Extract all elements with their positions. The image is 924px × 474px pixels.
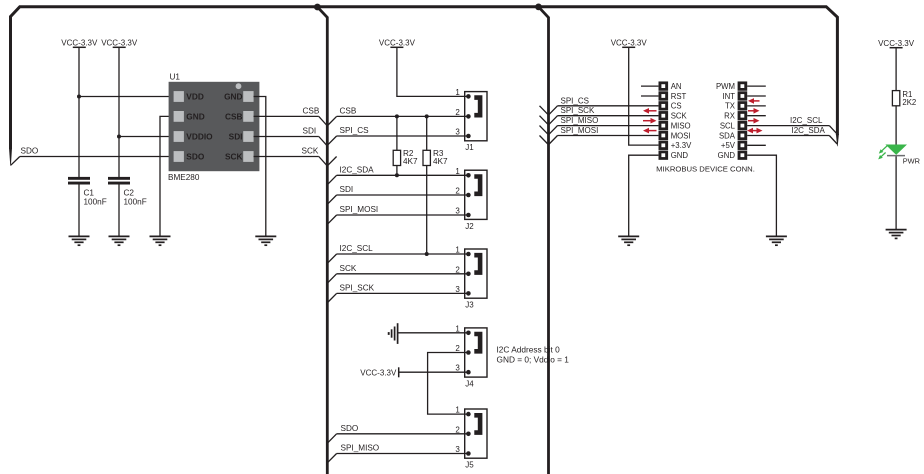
node junction VDDIO rail <box>117 135 121 139</box>
ground (U1 GND left) <box>150 236 171 245</box>
svg-text:+5V: +5V <box>721 141 736 150</box>
resistor R2 4K7 <box>393 116 400 175</box>
label C2 100nF <box>124 188 147 206</box>
svg-text:SCK: SCK <box>225 152 243 162</box>
arrow direction SCK/MISO <box>643 118 657 124</box>
svg-text:I2C Address bit 0: I2C Address bit 0 <box>497 344 561 354</box>
labels mikroBUS left pins <box>671 82 692 160</box>
svg-text:U1: U1 <box>170 73 181 82</box>
svg-text:SPI_MISO: SPI_MISO <box>341 444 380 453</box>
net SPI_MOSI wire divider to MOSI pin <box>549 136 658 145</box>
svg-text:MOSI: MOSI <box>671 131 691 140</box>
svg-text:GND = 0; Vddio = 1: GND = 0; Vddio = 1 <box>497 354 570 364</box>
border frame right taper end <box>836 134 839 146</box>
svg-text:SDO: SDO <box>21 147 39 156</box>
power symbol VCC-3.3V (C1 rail) <box>61 38 98 47</box>
tear stub left of divider row MISO <box>540 126 548 135</box>
wire VCC to R1 <box>895 48 897 90</box>
section divider 2 <box>535 4 548 474</box>
led emission arrows <box>878 145 888 160</box>
svg-text:3: 3 <box>455 445 460 454</box>
svg-text:CSB: CSB <box>225 111 243 121</box>
svg-text:VCC-3.3V: VCC-3.3V <box>61 38 98 47</box>
svg-text:J5: J5 <box>465 461 474 470</box>
svg-text:I2C_SDA: I2C_SDA <box>792 126 826 135</box>
svg-text:3: 3 <box>455 207 460 216</box>
svg-text:SPI_SCK: SPI_SCK <box>340 284 375 293</box>
ground (mikroBUS right) <box>766 236 787 245</box>
svg-text:2K2: 2K2 <box>902 98 916 107</box>
svg-text:VDD: VDD <box>186 92 204 102</box>
resistor R1 2K2 <box>892 91 899 106</box>
arrow direction TX/RX <box>748 108 760 114</box>
net SCK wire U1 to divider <box>254 157 327 166</box>
svg-text:MIKROBUS DEVICE CONN.: MIKROBUS DEVICE CONN. <box>656 165 755 174</box>
svg-text:CS: CS <box>671 102 682 111</box>
net SPI_MISO wire divider to J5 pin3 <box>328 454 468 463</box>
node junction R3 top on CSB <box>425 114 429 118</box>
wire TX pin stub <box>747 105 766 107</box>
wire VDD to U1 <box>79 96 173 98</box>
svg-text:RX: RX <box>724 112 736 121</box>
wire VCC to J1 pin1 <box>397 48 469 96</box>
svg-text:I2C_SDA: I2C_SDA <box>340 166 375 175</box>
wire J4 pin2 to J5 pin1 <box>428 353 469 415</box>
wire INT pin stub <box>747 95 766 97</box>
svg-text:SPI_CS: SPI_CS <box>340 126 370 135</box>
ground (C2) <box>109 236 130 245</box>
svg-text:SPI_MISO: SPI_MISO <box>561 116 599 125</box>
svg-text:SDO: SDO <box>341 424 359 433</box>
net I2C_SCL wire SCL pin to right edge <box>747 126 837 135</box>
net SDI wire divider to J2 pin2 <box>328 195 468 204</box>
label R2 4K7 <box>403 149 418 166</box>
svg-text:2: 2 <box>455 344 460 353</box>
svg-text:1: 1 <box>455 324 460 333</box>
connector mikroBUS left header <box>659 81 669 159</box>
wire PWM pin stub <box>747 85 766 87</box>
svg-text:1: 1 <box>455 167 460 176</box>
ground (PWR) <box>886 230 907 239</box>
svg-text:3: 3 <box>455 364 460 373</box>
svg-text:SDI: SDI <box>229 132 243 142</box>
net SCK wire divider to J3 pin2 <box>328 274 468 283</box>
svg-text:SDA: SDA <box>719 131 736 140</box>
svg-text:SPI_MOSI: SPI_MOSI <box>340 205 379 214</box>
svg-text:J1: J1 <box>465 143 474 152</box>
svg-text:SCK: SCK <box>671 112 688 121</box>
net SDO wire from left edge to U1 <box>11 157 173 166</box>
net SPI_SCK wire divider to SCK pin <box>549 116 658 125</box>
ic U1 BME280 <box>169 82 260 171</box>
svg-text:J4: J4 <box>465 380 474 389</box>
connector J4 <box>455 324 487 388</box>
node junction VDD rail <box>77 95 81 99</box>
capacitor C2 <box>108 177 130 185</box>
svg-text:C2: C2 <box>124 188 135 197</box>
svg-text:J2: J2 <box>465 222 474 231</box>
svg-text:BME280: BME280 <box>168 173 200 182</box>
net SPI_CS wire divider to J1 pin3 <box>328 136 468 145</box>
svg-text:2: 2 <box>455 425 460 434</box>
svg-text:GND: GND <box>224 92 242 102</box>
svg-text:PWM: PWM <box>716 82 735 91</box>
svg-text:SCL: SCL <box>720 121 736 130</box>
arrow direction MISO/MOSI <box>643 128 657 134</box>
svg-text:2: 2 <box>455 187 460 196</box>
svg-text:CSB: CSB <box>303 107 320 116</box>
net SDO wire divider to J5 pin2 <box>328 434 468 443</box>
svg-text:VDDIO: VDDIO <box>186 132 213 142</box>
label C1 100nF <box>84 188 107 206</box>
svg-text:AN: AN <box>671 82 682 91</box>
wire U1 GND to ground <box>160 116 173 236</box>
connector J5 <box>455 406 487 470</box>
svg-text:I2C_SCL: I2C_SCL <box>790 116 823 125</box>
svg-text:3: 3 <box>455 128 460 137</box>
svg-text:4K7: 4K7 <box>433 157 448 166</box>
wire VCC to +3.3V pin <box>629 48 659 145</box>
svg-text:1: 1 <box>455 88 460 97</box>
svg-text:MISO: MISO <box>671 121 691 130</box>
svg-text:2: 2 <box>455 265 460 274</box>
tear stub left of divider row CS <box>540 106 548 115</box>
section divider 1 <box>314 4 327 474</box>
svg-text:J3: J3 <box>465 301 474 310</box>
svg-text:1: 1 <box>455 246 460 255</box>
border frame left taper end <box>9 148 12 166</box>
svg-text:I2C_SCL: I2C_SCL <box>340 244 374 253</box>
wire GND pin to ground <box>629 155 659 236</box>
svg-text:SPI_MOSI: SPI_MOSI <box>561 126 599 135</box>
ground (J4 pin1, sideways) <box>389 323 398 344</box>
power symbol VCC-3.3V (mikroBUS) <box>611 38 648 47</box>
arrow direction CS/SCK <box>643 108 657 114</box>
svg-text:C1: C1 <box>84 188 95 197</box>
svg-text:4K7: 4K7 <box>403 157 418 166</box>
svg-text:SDI: SDI <box>303 127 317 136</box>
power symbol VCC-3.3V (C2 rail) <box>101 38 138 47</box>
svg-text:VCC-3.3V: VCC-3.3V <box>611 38 648 47</box>
svg-text:VCC-3.3V: VCC-3.3V <box>878 39 915 48</box>
tear stub left of divider row SCK <box>540 116 548 125</box>
wire RX pin stub <box>747 115 766 117</box>
ground (mikroBUS left) <box>618 236 639 245</box>
svg-text:SDI: SDI <box>340 185 354 194</box>
svg-text:1: 1 <box>455 406 460 415</box>
tear stub left of divider row MOSI <box>540 136 548 145</box>
border frame top edge <box>11 7 838 149</box>
tear stub at SCK row <box>328 157 337 166</box>
svg-text:PWR: PWR <box>903 157 920 166</box>
label R1 2K2 <box>902 90 916 107</box>
wire VDDIO to U1 <box>119 136 173 138</box>
wire AN pin stub <box>641 85 658 87</box>
power symbol VCC-3.3V (J1) <box>379 38 416 47</box>
net CSB wire divider to J1 pin2 <box>328 116 468 125</box>
svg-text:+3.3V: +3.3V <box>671 141 692 150</box>
svg-text:SCK: SCK <box>340 264 357 273</box>
wire LED to ground <box>895 156 897 229</box>
node junction R3 bottom on I2C_SCL <box>425 252 429 256</box>
wire VCC rail 2 down to C2 and ground <box>118 48 120 236</box>
wire R1 to LED <box>895 106 897 145</box>
label R3 4K7 <box>433 149 448 166</box>
label note I2C address <box>497 344 570 364</box>
svg-text:RST: RST <box>671 92 687 101</box>
svg-text:VCC-3.3V: VCC-3.3V <box>101 38 138 47</box>
wire +5V pin stub <box>747 144 766 146</box>
wire ground to J4 pin1 <box>398 332 469 334</box>
wire VCC to J4 pin3 <box>399 371 469 373</box>
svg-text:100nF: 100nF <box>84 197 107 206</box>
net I2C_SDA wire SDA pin to right edge <box>747 136 837 145</box>
svg-text:VCC-3.3V: VCC-3.3V <box>360 368 397 377</box>
svg-text:TX: TX <box>725 102 736 111</box>
svg-text:GND: GND <box>186 111 204 121</box>
wire RST pin stub <box>641 95 658 97</box>
svg-text:SDO: SDO <box>186 152 205 162</box>
wire GND pin to ground (right) <box>747 155 776 236</box>
node junction R2 bottom on I2C_SDA <box>395 173 399 177</box>
power symbol VCC-3.3V (J4 pin3) <box>360 367 398 377</box>
ground (U1 GND right) <box>255 236 276 245</box>
led PWR (green) <box>885 145 907 156</box>
net I2C_SCL wire divider to J3 pin1 <box>328 254 468 263</box>
svg-text:100nF: 100nF <box>124 197 147 206</box>
net CSB wire U1 to divider <box>254 116 327 125</box>
svg-text:SPI_CS: SPI_CS <box>561 96 589 105</box>
connector J3 <box>455 246 487 310</box>
capacitor C1 <box>68 177 90 185</box>
connector mikroBUS right header <box>738 81 748 159</box>
arrow direction INT/TX <box>748 98 760 104</box>
svg-text:VCC-3.3V: VCC-3.3V <box>379 38 416 47</box>
wire VCC rail 1 down to C1 and ground <box>78 48 80 236</box>
svg-text:2: 2 <box>455 108 460 117</box>
net I2C_SDA wire divider to J2 pin1 <box>328 175 468 184</box>
net SPI_MOSI wire divider to J2 pin3 <box>328 215 468 224</box>
connector J1 <box>455 88 487 152</box>
svg-text:CSB: CSB <box>340 107 357 116</box>
ground (C1) <box>69 236 90 245</box>
net SPI_MISO wire divider to MISO pin <box>549 126 658 135</box>
arrow direction RX/SCL <box>748 118 760 124</box>
svg-text:GND: GND <box>718 151 736 160</box>
svg-text:3: 3 <box>455 285 460 294</box>
resistor R3 4K7 <box>423 116 430 254</box>
node junction R2 top on CSB <box>395 114 399 118</box>
svg-text:INT: INT <box>722 92 735 101</box>
net SDI wire U1 to divider <box>254 137 327 146</box>
labels mikroBUS right pins <box>716 82 736 160</box>
wire U1 GND(right) to ground <box>254 97 266 237</box>
svg-text:GND: GND <box>671 151 689 160</box>
svg-text:SCK: SCK <box>302 147 319 156</box>
net SPI_SCK wire divider to J3 pin3 <box>328 293 468 302</box>
connector J2 <box>455 167 487 231</box>
svg-text:SPI_SCK: SPI_SCK <box>561 106 595 115</box>
power symbol VCC-3.3V (PWR) <box>878 39 915 48</box>
arrow direction SCL/SDA <box>747 128 763 134</box>
net SPI_CS wire divider to CS pin <box>549 106 658 115</box>
